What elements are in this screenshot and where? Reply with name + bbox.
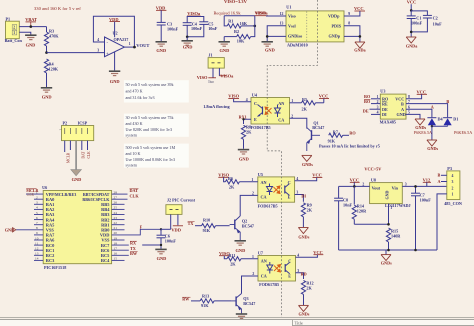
svg-text:7: 7	[408, 100, 410, 104]
svg-text:GNDs: GNDs	[427, 146, 438, 151]
resistor R4	[44, 59, 58, 87]
svg-text:14: 14	[35, 257, 39, 261]
svg-text:2: 2	[252, 192, 254, 196]
svg-text:system: system	[126, 163, 138, 168]
wire U3 pin2 RE	[364, 99, 380, 104]
svg-text:6: 6	[36, 216, 38, 220]
svg-text:GND: GND	[397, 112, 406, 117]
svg-text:50 volt 5 volt system use 39k: 50 volt 5 volt system use 39k	[126, 82, 175, 87]
svg-text:Vsel: Vsel	[288, 23, 297, 28]
power VISO (U5)	[218, 172, 229, 177]
svg-text:VCC: VCC	[407, 0, 417, 4]
svg-text:AN: AN	[261, 180, 267, 185]
svg-text:U5: U5	[258, 172, 263, 177]
capacitor C2	[411, 11, 442, 32]
wire junction to opamp +	[47, 52, 105, 54]
capacitor C3	[157, 22, 179, 41]
svg-text:A: A	[438, 179, 441, 184]
svg-text:330 and 160 K for 5 v ref: 330 and 160 K for 5 v ref	[34, 6, 81, 11]
svg-text:9: 9	[348, 12, 350, 16]
svg-text:E: E	[254, 117, 257, 122]
wire U1 PDIS down	[344, 26, 360, 37]
svg-text:GND: GND	[220, 48, 230, 53]
wire U4 CA to Q1	[290, 118, 307, 128]
svg-text:and 470 K: and 470 K	[126, 88, 143, 93]
svg-text:BC547: BC547	[243, 301, 255, 306]
svg-text:PIC16F1518: PIC16F1518	[44, 265, 66, 270]
wire U1 GNDp	[344, 36, 360, 42]
transistor Q3 BC547	[231, 294, 242, 314]
wire U3 pin4 DI	[371, 111, 380, 115]
regulator U8 LD1117	[370, 177, 411, 208]
svg-text:13: 13	[280, 22, 284, 26]
wire opamp output to VOUT	[124, 46, 136, 48]
wire P3 pin4 to B	[438, 172, 447, 177]
ground GND (U1 left)	[262, 42, 275, 53]
resistor R5	[290, 97, 324, 112]
svg-text:100nF: 100nF	[165, 239, 177, 244]
svg-text:12: 12	[35, 247, 39, 251]
svg-text:100nF: 100nF	[167, 26, 179, 31]
svg-text:1.8mA flowing: 1.8mA flowing	[203, 104, 230, 109]
svg-text:RD: RD	[301, 271, 307, 276]
ground GND (P2)	[71, 170, 82, 183]
junction VBAT	[30, 25, 33, 28]
svg-text:CA: CA	[261, 195, 267, 200]
svg-text:1: 1	[291, 99, 293, 103]
svg-text:GNDs: GNDs	[299, 312, 310, 317]
svg-text:MCLR: MCLR	[67, 152, 71, 163]
optocoupler U4 FOD617B5	[251, 93, 290, 131]
svg-text:4: 4	[296, 177, 298, 181]
svg-text:R7: R7	[333, 129, 338, 134]
svg-text:A: A	[431, 105, 434, 110]
svg-text:R11: R11	[229, 253, 236, 258]
svg-text:J2 PIC Current: J2 PIC Current	[167, 198, 196, 203]
svg-text:91K: 91K	[203, 228, 211, 233]
svg-text:3: 3	[377, 105, 379, 109]
svg-text:VDD: VDD	[109, 17, 119, 22]
svg-text:140R: 140R	[391, 233, 401, 238]
svg-text:2K: 2K	[306, 285, 312, 290]
power VCC (C1/C2)	[407, 0, 417, 10]
svg-text:C2: C2	[433, 15, 438, 20]
IC U1 ADuM3010	[286, 5, 344, 48]
svg-text:1: 1	[377, 95, 379, 99]
svg-text:100R: 100R	[26, 193, 34, 197]
svg-text:4: 4	[246, 98, 248, 102]
svg-text:GNDiso: GNDiso	[288, 34, 302, 39]
svg-text:3: 3	[405, 183, 407, 187]
svg-text:U8: U8	[371, 177, 376, 182]
power VDD (C3)	[156, 5, 167, 22]
opto internals: led left	[267, 184, 273, 196]
node CLK	[130, 194, 140, 199]
svg-text:16K: 16K	[240, 21, 248, 26]
svg-text:VISOa: VISOa	[220, 73, 234, 78]
power VCC (R5)	[319, 94, 329, 103]
svg-text:27: 27	[114, 196, 118, 200]
svg-text:2: 2	[377, 100, 379, 104]
svg-text:16: 16	[114, 252, 118, 256]
connector P1	[5, 16, 23, 43]
svg-text:2: 2	[452, 186, 454, 190]
svg-text:100nF: 100nF	[420, 197, 432, 202]
svg-text:Title: Title	[295, 321, 303, 326]
svg-text:CLK: CLK	[130, 194, 140, 199]
svg-text:RC4: RC4	[101, 258, 110, 263]
node RW (R13)	[182, 297, 190, 302]
svg-text:10: 10	[35, 236, 39, 240]
svg-text:U6: U6	[42, 185, 47, 190]
resistor R6	[224, 176, 258, 190]
wire U5 E to R9	[295, 195, 304, 202]
svg-text:8: 8	[36, 226, 38, 230]
ground GND (U6 VSS left)	[5, 228, 16, 233]
svg-text:500 volt 5 volt system use 1M: 500 volt 5 volt system use 1M	[126, 145, 176, 150]
wire U8 Vin rail	[402, 185, 447, 187]
svg-text:FOD617B5: FOD617B5	[258, 203, 278, 208]
svg-text:485_CON: 485_CON	[444, 201, 462, 206]
svg-text:10nF: 10nF	[433, 21, 443, 26]
svg-text:2: 2	[36, 196, 38, 200]
wire P3 pin3 to A	[438, 179, 447, 184]
svg-text:GND: GND	[72, 177, 82, 182]
svg-text:4: 4	[377, 111, 379, 115]
svg-text:+: +	[106, 51, 109, 56]
wire U7 CA to Q3	[242, 276, 259, 294]
wire J2 left pin joins VDD rail	[161, 228, 171, 230]
svg-text:VCC: VCC	[354, 6, 364, 11]
node C4 junction	[186, 36, 189, 39]
svg-text:U7: U7	[258, 250, 263, 255]
wire VCC rail to U8 Vout	[339, 185, 370, 187]
wire U4 E pin to R8	[244, 119, 252, 124]
power VISOa (J1 right pin)	[219, 73, 234, 78]
svg-text:CLK: CLK	[87, 151, 91, 159]
svg-text:GND: GND	[236, 248, 246, 253]
svg-text:5: 5	[408, 111, 410, 115]
svg-text:CA: CA	[261, 273, 267, 278]
power VISOa (U1 pin12)	[255, 11, 269, 16]
svg-text:120R: 120R	[357, 209, 367, 214]
power VISO (U4)	[228, 94, 239, 99]
svg-text:GND: GND	[156, 48, 166, 53]
wire U3 pin1 RO	[364, 94, 380, 99]
ground GND (op-amp)	[109, 71, 120, 84]
power VCC (U7)	[296, 250, 324, 257]
opto internals: transistor right	[285, 262, 290, 273]
svg-text:RE: RE	[382, 101, 388, 106]
svg-text:VISOa: VISOa	[255, 11, 269, 16]
svg-text:2: 2	[362, 183, 364, 187]
wire bottom rail	[339, 249, 437, 251]
svg-text:18: 18	[114, 241, 118, 245]
svg-text:13: 13	[35, 252, 39, 256]
transistor Q2 BC547	[230, 216, 241, 240]
svg-text:GNDs: GNDs	[381, 260, 392, 265]
node R3/R4 junction	[45, 51, 48, 54]
svg-text:4: 4	[452, 174, 454, 178]
note block 3	[124, 144, 189, 168]
isolation boundary dashed	[267, 0, 317, 317]
svg-text:2K: 2K	[246, 130, 252, 135]
opto internals: transistor right	[285, 184, 290, 195]
ground GNDs (Q1)	[302, 155, 314, 167]
wire U1 pin13 to gnd column	[267, 26, 286, 41]
ground GND (Q3)	[236, 314, 247, 318]
capacitor C1	[407, 10, 423, 36]
svg-text:3: 3	[296, 191, 298, 195]
svg-text:GNDa: GNDa	[354, 47, 366, 52]
capacitor C4	[183, 22, 203, 37]
resistor R9	[301, 203, 312, 227]
opto light arrows	[274, 186, 281, 194]
svg-text:GND: GND	[157, 256, 167, 261]
svg-text:GND: GND	[26, 42, 36, 47]
svg-text:R6: R6	[228, 176, 233, 181]
svg-text:470K: 470K	[49, 33, 59, 38]
node TX (R10)	[188, 221, 195, 226]
svg-text:U3: U3	[380, 89, 385, 94]
title block corner	[293, 320, 474, 326]
svg-text:Iiso: Iiso	[208, 80, 214, 84]
wire opamp V- to gnd	[114, 52, 116, 70]
svg-text:2: 2	[291, 114, 293, 118]
wire U1 pin12	[266, 15, 286, 17]
svg-text:Use 1000K and 8.06K for 3v3: Use 1000K and 8.06K for 3v3	[126, 157, 176, 162]
svg-text:26: 26	[114, 201, 118, 205]
wire R14 to R15 top	[354, 223, 388, 225]
svg-text:U4: U4	[252, 93, 258, 98]
ground GNDs (diodes)	[427, 140, 439, 151]
svg-text:17: 17	[114, 247, 118, 251]
svg-text:Batt_Con: Batt_Con	[5, 38, 23, 43]
ground GNDs (rail)	[381, 255, 392, 266]
svg-text:4: 4	[36, 206, 38, 210]
ground GND (C6)	[155, 249, 166, 261]
svg-text:8: 8	[408, 95, 410, 99]
svg-text:GNDs: GNDs	[298, 235, 309, 240]
wire U5 CA to Q2	[240, 195, 258, 216]
svg-text:3: 3	[297, 269, 299, 273]
svg-text:D1: D1	[453, 117, 458, 122]
svg-text:DI: DI	[382, 112, 387, 117]
svg-text:4: 4	[97, 38, 99, 42]
node MCLR label	[26, 188, 38, 197]
svg-text:FOD617B5: FOD617B5	[251, 125, 271, 130]
optocoupler U7 FOD617B5	[258, 250, 296, 287]
resistor R13	[191, 293, 231, 308]
opto light arrows	[265, 107, 272, 115]
wire U1 GNDiso pin	[267, 35, 286, 37]
svg-text:VCC: VCC	[350, 177, 360, 182]
resistor R14	[352, 186, 367, 224]
node F flag	[140, 224, 143, 229]
svg-text:P6KE6.5A: P6KE6.5A	[414, 130, 432, 135]
svg-text:R5: R5	[302, 97, 307, 102]
svg-text:DI: DI	[301, 193, 306, 198]
connector J1	[208, 52, 224, 77]
svg-text:B: B	[438, 172, 441, 177]
svg-text:5: 5	[36, 211, 38, 215]
svg-text:OPA237: OPA237	[114, 37, 129, 42]
power VBAT	[25, 17, 37, 27]
wire U3 VCC pin8	[406, 94, 422, 99]
power VCC (U5)	[295, 173, 323, 181]
svg-text:GND: GND	[110, 79, 120, 84]
ground GNDs (R9)	[298, 228, 309, 240]
svg-text:RO: RO	[349, 131, 356, 136]
svg-text:30 volt 5 volt system use 75k: 30 volt 5 volt system use 75k	[126, 115, 175, 120]
svg-text:VISO: VISO	[228, 94, 239, 99]
svg-text:100nF: 100nF	[411, 21, 423, 26]
svg-text:VDD: VDD	[171, 227, 181, 232]
svg-text:R13: R13	[202, 293, 209, 298]
wire P2 pins	[65, 141, 88, 152]
svg-text:4: 4	[297, 254, 299, 258]
svg-text:10nF: 10nF	[343, 203, 353, 208]
svg-text:28: 28	[114, 190, 118, 194]
svg-text:2K: 2K	[307, 208, 313, 213]
svg-text:3: 3	[452, 180, 454, 184]
svg-text:19: 19	[114, 236, 118, 240]
power VISO (J1 left pin)	[197, 75, 216, 84]
opto internals: led left	[267, 262, 273, 274]
power V12	[423, 177, 431, 186]
ground GND (P1)	[25, 35, 36, 47]
svg-text:2K: 2K	[230, 261, 236, 266]
capacitor C7	[411, 186, 431, 250]
svg-text:VISO: VISO	[197, 75, 208, 80]
note block 1	[124, 80, 189, 102]
wire U6 VDD pin20 to J2	[112, 229, 161, 235]
svg-text:DE: DE	[363, 109, 369, 114]
ground GND (C3)	[156, 42, 167, 53]
svg-text:P3: P3	[447, 166, 452, 171]
wire P1 pin1 to GND	[19, 32, 31, 34]
svg-text:R10: R10	[203, 217, 210, 222]
svg-text:GND: GND	[384, 191, 389, 200]
svg-text:VCC=5V: VCC=5V	[364, 167, 382, 172]
op-amp U2 OPA237	[97, 31, 131, 57]
ground GNDa (U1 right)	[354, 42, 366, 52]
svg-text:23: 23	[114, 216, 118, 220]
connector P3 485_CON	[444, 166, 462, 206]
svg-text:VISOa: VISOa	[187, 11, 201, 16]
svg-text:1: 1	[129, 42, 131, 46]
wire P3 pin1 down to rail	[437, 194, 447, 250]
resistor R1	[227, 19, 255, 28]
svg-text:J1: J1	[208, 52, 212, 57]
svg-text:V12: V12	[423, 177, 431, 182]
svg-text:VDD: VDD	[156, 5, 166, 10]
wire U1 VDDp to VCC	[344, 11, 360, 16]
wire feedback loop	[93, 16, 134, 47]
svg-text:8: 8	[348, 22, 350, 26]
sheet bottom border	[0, 317, 474, 319]
svg-text:P6KE6.5A: P6KE6.5A	[454, 130, 472, 135]
svg-text:1: 1	[251, 178, 253, 182]
svg-text:2: 2	[13, 25, 15, 29]
wire U3 B pin7	[406, 104, 448, 118]
svg-text:ICSP: ICSP	[78, 120, 88, 125]
svg-text:E: E	[288, 273, 291, 278]
resistor R3	[44, 27, 59, 53]
svg-text:GND: GND	[239, 156, 249, 161]
wire U3 A pin6	[406, 109, 432, 117]
svg-text:CA: CA	[278, 117, 284, 122]
diode D4 P6KE6.5A	[414, 117, 444, 136]
power VISO (U7)	[219, 251, 230, 256]
svg-text:1: 1	[452, 193, 454, 197]
svg-text:C: C	[254, 101, 257, 106]
svg-text:B: B	[401, 101, 404, 106]
svg-text:15: 15	[114, 257, 118, 261]
svg-text:and 430 K: and 430 K	[126, 121, 143, 126]
capacitor C6	[157, 229, 177, 245]
svg-text:AN: AN	[261, 258, 267, 263]
resistor R2	[224, 29, 250, 44]
power VCC (U8 out)	[350, 177, 360, 186]
wire U7 E to R12	[296, 273, 304, 279]
wire P1 pin2 to R3	[19, 26, 46, 28]
svg-text:1: 1	[13, 31, 15, 35]
optocoupler U5 FOD617B5	[258, 172, 295, 208]
node TX	[130, 246, 136, 251]
svg-text:system: system	[126, 133, 138, 138]
capacitor C5	[199, 21, 217, 31]
ground GND (Q2)	[235, 241, 246, 253]
power VISOa (C4)	[187, 11, 201, 16]
svg-text:12: 12	[280, 12, 284, 16]
svg-text:ADuM3010: ADuM3010	[287, 42, 308, 47]
svg-text:P2: P2	[63, 120, 68, 125]
svg-text:3: 3	[36, 201, 38, 205]
wire C4/C5 loop	[186, 16, 188, 23]
svg-text:21: 21	[114, 226, 118, 230]
svg-text:VCC: VCC	[417, 89, 427, 94]
svg-text:100nF: 100nF	[191, 26, 203, 31]
svg-text:U1: U1	[286, 5, 291, 10]
svg-text:91K: 91K	[201, 303, 209, 308]
connector P2 ICSP	[59, 120, 94, 140]
capacitor C8	[334, 186, 352, 250]
svg-text:Passes 10 mA Iic but limited b: Passes 10 mA Iic but limited by r5	[319, 144, 380, 149]
power VCC (U3)	[417, 89, 428, 94]
resistor R8	[241, 125, 252, 149]
wire C6 bottom rail	[142, 245, 161, 249]
ground GND (R8)	[238, 150, 249, 162]
svg-text:and 31.6k for 3v3: and 31.6k for 3v3	[126, 95, 155, 100]
svg-text:2K: 2K	[229, 185, 235, 190]
wire U3 GND pin5	[406, 114, 420, 119]
IC U6 PIC16F1518	[42, 185, 112, 270]
svg-text:Use 820K and 100K for 3v3: Use 820K and 100K for 3v3	[126, 127, 173, 132]
svg-text:1: 1	[252, 255, 254, 259]
svg-text:DAT: DAT	[82, 151, 86, 159]
opto light arrows	[274, 265, 281, 273]
svg-text:Viso: Viso	[288, 14, 296, 19]
diode D1 P6KE6.5A	[443, 117, 472, 136]
power VDD (op-amp)	[109, 17, 120, 37]
svg-text:VISO=3.3V: VISO=3.3V	[224, 0, 248, 4]
resistor R11	[224, 253, 258, 267]
node divider junction	[254, 25, 257, 28]
svg-text:VCC: VCC	[312, 173, 322, 178]
resistor R7	[328, 129, 349, 143]
svg-text:1: 1	[390, 206, 392, 210]
